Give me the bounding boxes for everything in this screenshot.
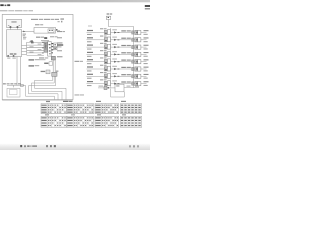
lamp L1 body: [106, 16, 110, 19]
frame note text: [31, 19, 38, 20]
junction labels: [3, 83, 6, 84]
wire to ground box: [13, 85, 15, 87]
wire cluster down 3: [56, 71, 59, 72]
table title 2: [63, 101, 69, 102]
connector table B3: [95, 116, 119, 127]
wire return 2: [32, 76, 63, 99]
ECU box E1: [7, 30, 22, 57]
bus A mid: [110, 28, 112, 88]
cluster bottom text: [39, 57, 44, 58]
net label 2: [57, 37, 62, 38]
page gutter label 2: [75, 94, 80, 95]
wire cluster down 1: [52, 60, 54, 72]
E1 note text: [23, 37, 26, 38]
ECU E1 label: [10, 53, 13, 54]
cluster detail marks: [45, 45, 47, 46]
wire L1 feed: [107, 19, 109, 26]
node label above cluster: [36, 37, 41, 38]
wire return 1: [35, 76, 67, 99]
table title row2 b: [71, 114, 75, 115]
net label 4: [57, 44, 63, 46]
circuit row 5: [87, 57, 149, 64]
wire bus-connector 4: [27, 49, 44, 51]
connector C2 body: [48, 42, 52, 57]
ground box G1: [7, 88, 20, 97]
circuit row 9 with loop: [98, 84, 139, 97]
net label 5: [57, 50, 62, 51]
circuit row 4: [87, 50, 149, 57]
C6 labels: [29, 59, 35, 60]
wire cluster down 2: [54, 60, 56, 72]
status icon right 3: [137, 145, 139, 147]
wire bus-connector 2: [27, 44, 44, 46]
ground box G1 inner: [9, 90, 17, 95]
relay K1 inner contact: [48, 29, 54, 33]
connector C3 body: [54, 43, 58, 47]
wire bus-connector 5: [27, 52, 44, 54]
E1 side label: [23, 34, 26, 35]
wire top branch: [22, 30, 35, 32]
wire bus-connector 6: [27, 55, 44, 57]
resistor R1 body: [46, 70, 50, 74]
circuit row 1: [87, 28, 149, 35]
wire E1 down 2: [19, 57, 21, 84]
status icon right 1: [129, 145, 131, 147]
switch S1 terminal 2: [17, 26, 19, 28]
status icon 1: [20, 145, 22, 147]
diode D1 body: [49, 62, 53, 65]
net label 3: [57, 42, 63, 43]
bus vertical: [26, 42, 28, 54]
bus B right: [133, 27, 135, 88]
connector C6 body: [52, 72, 57, 76]
status icon right 2: [133, 145, 135, 147]
relay K1 label: [35, 24, 40, 25]
net label 6: [57, 56, 63, 57]
wire S1 to E1 drop 2: [16, 28, 18, 30]
connector C5 dark body: [51, 56, 55, 60]
connector table A3: [95, 104, 119, 114]
ECU E1 pin labels: [7, 58, 10, 59]
wire return 4: [26, 85, 55, 99]
status icon 2: [24, 145, 26, 147]
wire top feed horizontal: [108, 26, 133, 28]
relay K1 inner marks: [49, 30, 50, 31]
circuit row 6: [87, 65, 149, 72]
ECU E1 pin marks: [7, 55, 8, 56]
wire E1-bus 1: [22, 45, 27, 47]
wire bus-connector 3: [27, 47, 44, 49]
status icon 4: [50, 145, 52, 147]
window title text: [0, 4, 3, 6]
wire S1 to E1 drop 1: [9, 28, 11, 30]
circuit row 3: [87, 43, 149, 50]
switch box S1: [7, 19, 22, 27]
connector table A2: [67, 104, 94, 114]
connector table B2: [67, 116, 94, 127]
connector C1 body: [44, 42, 48, 52]
connector table B4: [121, 116, 142, 127]
wire return 3: [29, 76, 59, 99]
K1 output terminal: [56, 29, 58, 30]
status page text: [27, 145, 29, 147]
circuit row 7: [87, 72, 149, 79]
connector pins: [52, 43, 54, 44]
page gutter label: [75, 61, 80, 62]
wire bus-connector 1: [27, 41, 44, 43]
connector table A1: [41, 104, 67, 114]
diagram frame: [2, 14, 73, 99]
status icon 3: [46, 145, 48, 147]
header caption line: [0, 10, 8, 11]
junction arrow a: [23, 31, 25, 33]
relay box K1: [34, 28, 56, 34]
connector C4 body: [54, 47, 57, 50]
net label 1: [57, 31, 63, 32]
wire labels: [30, 40, 34, 43]
circuit row 2: [87, 36, 149, 43]
switch S1 label: [11, 21, 16, 22]
wire E1-bus 3: [22, 51, 27, 53]
connector table A4: [121, 104, 142, 114]
wire K1 output: [56, 29, 61, 31]
status bar: [0, 143, 150, 150]
wire junction horizontal: [7, 84, 26, 86]
top-right menu icon: [145, 5, 150, 7]
table title 1: [46, 101, 50, 102]
table title row2 a: [45, 114, 49, 115]
connector table B1: [41, 116, 67, 127]
circuit row 8: [87, 79, 149, 86]
wire E1-bus 2: [22, 48, 27, 50]
switch S1 terminal 1: [10, 26, 12, 28]
wire E1 down 1: [16, 57, 18, 86]
cluster title text: [50, 36, 55, 37]
splice connector: [20, 84, 23, 86]
status icon 5: [54, 145, 56, 147]
lamp L1 label: [107, 13, 110, 14]
wire E1-bus 4: [22, 54, 27, 56]
